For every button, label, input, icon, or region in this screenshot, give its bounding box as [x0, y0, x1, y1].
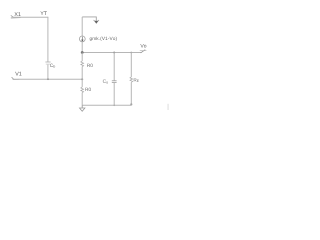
capacitor Co: [112, 80, 117, 82]
R0 lower label: [85, 88, 91, 91]
wire: vertical from YT elbow down to Cb: [47, 17, 49, 62]
wire: source bottom to output node: [81, 42, 83, 53]
wire: output node horizontal: [82, 52, 141, 54]
resistor R0 lower: [81, 87, 84, 93]
supply stub wire at top: [82, 17, 96, 21]
Vo underline tick: [140, 50, 147, 52]
wire: Cb down to V1 rail: [47, 65, 49, 80]
edge artifact mark: [167, 104, 169, 110]
wire between resistors: [81, 67, 83, 87]
wire: V1 horizontal: [13, 78, 82, 80]
terminal slash at Vo: [141, 50, 146, 53]
R0 upper label: [87, 64, 93, 67]
Cb value label: [50, 64, 55, 68]
resistor RE: [130, 77, 133, 82]
resistor R0 upper: [81, 53, 83, 62]
wire: top vertical into current source: [81, 17, 83, 36]
junction dot RE top: [130, 52, 132, 54]
current source arrow: [81, 37, 83, 40]
junction dot V1-branch: [81, 78, 83, 80]
wire: RE branch vertical bottom: [130, 82, 132, 105]
Co label: [103, 79, 108, 83]
terminal slash at X1: [11, 15, 14, 17]
wire: lower resistor to ground rail: [81, 93, 83, 106]
junction dot node out: [81, 51, 84, 54]
junction dot Cb-V1: [47, 78, 49, 80]
node X1 label: [14, 12, 20, 16]
junction dot Co top: [113, 52, 115, 54]
capacitor Cb: [45, 61, 50, 63]
wire: Co branch vertical top: [113, 53, 115, 81]
current source U1 circle: [79, 36, 85, 42]
wire: RE branch vertical top: [130, 53, 132, 78]
ground symbol: [81, 105, 83, 108]
current source value gmk(V1-Vo): [90, 37, 117, 41]
wire: X1 horizontal top: [13, 16, 49, 18]
terminal slash at V1: [12, 77, 14, 79]
node V1 label: [15, 72, 21, 76]
wire: Co branch vertical bottom: [113, 83, 115, 106]
supply down-arrow: [94, 21, 98, 24]
ground rail bottom: [82, 104, 131, 106]
node YT label: [40, 11, 46, 15]
node Vo label: [140, 44, 146, 47]
RE label: [134, 78, 139, 82]
junction blob RE corner: [130, 103, 132, 105]
junction dot Co bottom: [113, 105, 115, 107]
